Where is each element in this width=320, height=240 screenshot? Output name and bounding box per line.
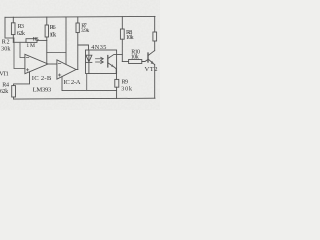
svg-text:R5: R5 [33, 36, 39, 42]
svg-text:10k: 10k [131, 55, 139, 61]
svg-text:R2: R2 [2, 38, 10, 45]
svg-text:3.9k: 3.9k [81, 28, 90, 34]
svg-text:10k: 10k [126, 34, 135, 41]
svg-text:30k: 30k [121, 86, 132, 92]
svg-text:LM393: LM393 [33, 86, 52, 93]
svg-text:IC 2-A: IC 2-A [64, 79, 81, 86]
svg-text:R4: R4 [2, 83, 9, 89]
svg-text:VT2: VT2 [145, 66, 158, 73]
svg-text:R9: R9 [122, 80, 129, 86]
svg-text:10k: 10k [49, 32, 57, 39]
svg-text:R6: R6 [50, 24, 56, 31]
svg-text:IC 2-B: IC 2-B [32, 75, 52, 82]
svg-text:1M: 1M [26, 43, 35, 49]
svg-text:62k: 62k [0, 89, 8, 95]
svg-text:62k: 62k [17, 30, 26, 37]
svg-text:30k: 30k [1, 45, 11, 52]
svg-text:4N35: 4N35 [91, 44, 106, 51]
svg-text:VT1: VT1 [0, 72, 9, 78]
svg-text:R3: R3 [18, 23, 24, 30]
